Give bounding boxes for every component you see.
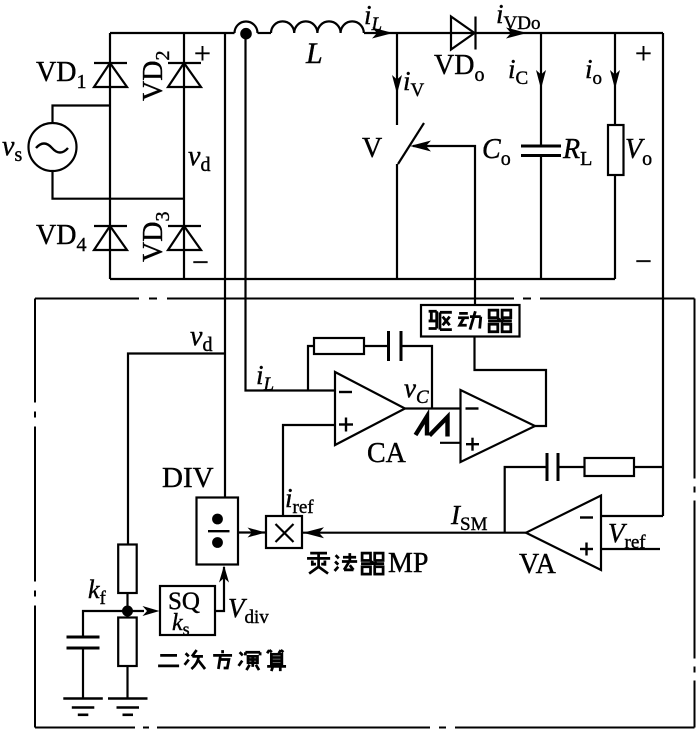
wire CA feedback tap (308, 346, 314, 391)
arrow gate drive (410, 141, 431, 152)
arrow iC (536, 70, 546, 89)
wire capacitor to ground (82, 648, 84, 699)
wire SQ output to DIV (215, 567, 224, 611)
wire RL branch lower (614, 175, 616, 279)
wire VA feedback (505, 467, 547, 533)
wire RL branch upper (614, 33, 616, 125)
AC source vs (29, 123, 77, 171)
wire comparator plus stub (440, 442, 461, 444)
arrow iL (372, 28, 393, 39)
char qi (488, 310, 512, 332)
arrow into SQ (143, 606, 160, 616)
wire bottom rail (110, 278, 615, 280)
wire iL sense down (246, 33, 336, 391)
node kf junction (123, 607, 132, 616)
svg-text:V: V (362, 133, 382, 164)
label VD1 (36, 57, 86, 93)
label iV (403, 66, 425, 101)
wire cap to resistor VA feedback (558, 466, 585, 468)
wire Vo sense right rail (662, 33, 664, 516)
wire resistor to right rail (634, 466, 663, 468)
wire top rail (110, 32, 663, 34)
label multiplier CJK MP (307, 553, 384, 574)
wire junction to filter capacitor (83, 611, 128, 637)
wire vd sense rail (224, 33, 226, 498)
label iL top (364, 0, 382, 35)
label VDo (434, 50, 484, 86)
wire bridge right leg (183, 33, 185, 279)
char fang (213, 650, 232, 669)
svg-text:+: + (635, 37, 652, 70)
char ci (185, 650, 205, 669)
resistor CA feedback (314, 338, 364, 354)
label VD2 rotated (138, 51, 174, 101)
svg-text:VA: VA (519, 549, 557, 580)
diode VD3 (168, 226, 201, 250)
wire junction to SQ (128, 610, 145, 612)
comparator U2 (461, 390, 536, 462)
divider DIV box (197, 498, 239, 565)
wire bridge left leg (109, 33, 111, 279)
label Co (482, 134, 511, 170)
arrow iV (392, 75, 402, 94)
label io (585, 54, 602, 89)
label kf (88, 575, 107, 609)
wire vs top to bridge (53, 106, 111, 124)
label vd bridge (188, 141, 210, 176)
wire between divider resistors (126, 593, 128, 618)
label V switch (362, 133, 382, 164)
wire arc over iL tap (235, 22, 258, 34)
label CA (367, 438, 407, 469)
driver box (421, 305, 520, 337)
wire switch branch upper (396, 33, 398, 125)
sawtooth symbol (416, 417, 448, 437)
wire CA output (405, 407, 461, 409)
label Vref (608, 518, 646, 553)
label vd control (190, 321, 212, 356)
arrow iVDo (506, 28, 527, 39)
resistor divider R lower (118, 618, 137, 667)
wire switch branch lower (396, 164, 398, 279)
char er (158, 655, 179, 666)
char yan (239, 652, 261, 670)
label MP (388, 548, 428, 579)
wire vd branch to divider (128, 354, 225, 545)
diode VDo (451, 17, 476, 50)
label VD3 rotated (138, 212, 174, 262)
ground under capacitor (63, 699, 103, 715)
label VA (519, 549, 557, 580)
svg-text:DIV: DIV (162, 462, 214, 494)
label plus output (635, 37, 652, 70)
char cheng (307, 553, 330, 573)
label ISM (450, 500, 488, 535)
control box dash-dot border (35, 299, 695, 728)
wire feedback resistor to capacitor (364, 345, 389, 347)
node junction iL tap (241, 29, 250, 38)
wire Vref input (601, 548, 660, 550)
wire Co branch lower (540, 156, 542, 280)
char fa (335, 553, 358, 571)
arrow Vdiv into DIV (219, 566, 229, 583)
wire comparator output to driver (475, 337, 547, 427)
svg-text:MP: MP (388, 548, 428, 579)
wire vs bottom to bridge right leg (53, 171, 185, 199)
diode VD4 (94, 226, 127, 250)
resistor RL (608, 125, 624, 175)
op-amp CA (335, 372, 405, 445)
multiplier MP box (266, 516, 302, 548)
char dong (458, 311, 481, 329)
label vC (404, 373, 429, 408)
arrow ISM into multiplier (303, 527, 324, 538)
svg-text:CA: CA (367, 438, 407, 469)
svg-text:−: − (192, 246, 209, 279)
svg-text:+: + (194, 37, 211, 70)
ground under resistor (108, 699, 148, 715)
inductor L (271, 21, 364, 33)
label DIV (162, 462, 214, 494)
label minus bridge (192, 246, 209, 279)
capacitor filter (67, 637, 100, 648)
diode VD2 (168, 63, 201, 87)
wire CA plus input (283, 425, 335, 516)
wire lower resistor to ground (126, 666, 128, 699)
capacitor Co (521, 146, 561, 156)
arrow DIV to multiplier (248, 528, 266, 538)
label iC (508, 54, 528, 89)
label Vo (625, 134, 652, 170)
capacitor CA feedback (389, 331, 402, 361)
capacitor VA feedback (547, 453, 558, 481)
wire VA output ISM (303, 532, 526, 534)
label iL control (256, 360, 274, 395)
char qu (429, 311, 452, 329)
char suan (267, 650, 286, 671)
label plus bridge (194, 37, 211, 70)
switch V blade (398, 123, 424, 164)
label iref (285, 483, 314, 518)
label SQ ks (168, 588, 200, 639)
resistor VA feedback (585, 458, 635, 476)
label minus output (635, 245, 652, 278)
char qi2 (361, 553, 384, 574)
label RL (562, 134, 592, 170)
SQ box (160, 586, 215, 635)
label driver CJK (429, 310, 512, 332)
label L (305, 37, 323, 70)
label squarer CJK (158, 650, 286, 671)
label Vdiv (228, 593, 269, 628)
arrow io (610, 70, 620, 89)
wire gate drive to switch (413, 146, 475, 305)
wire Co branch upper (540, 33, 542, 146)
wire feedback capacitor to CA output (401, 346, 432, 409)
wire DIV output to multiplier (238, 531, 265, 533)
op-amp VA (526, 496, 601, 571)
diode VD1 (94, 63, 127, 87)
resistor divider R upper (118, 545, 137, 594)
svg-text:L: L (305, 37, 323, 70)
wire VA minus input (601, 515, 663, 517)
label vs (2, 131, 22, 166)
svg-text:−: − (635, 245, 652, 278)
label VD4 (36, 220, 86, 256)
label iVDo (496, 0, 540, 34)
